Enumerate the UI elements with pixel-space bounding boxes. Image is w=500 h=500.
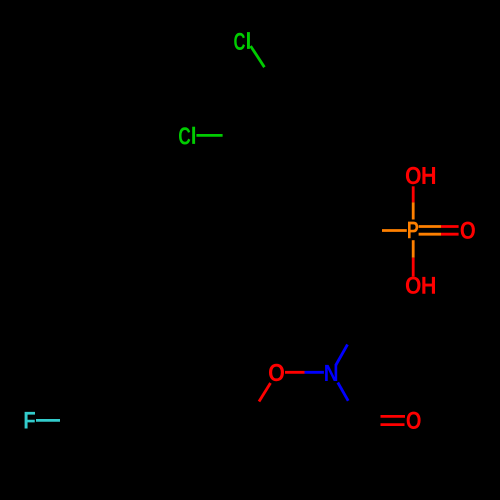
bond P=O lower line, P half xyxy=(419,233,441,236)
bond O-N, O half xyxy=(285,371,305,374)
bond P=O lower line, O half xyxy=(441,233,459,236)
atom label ether O xyxy=(269,364,284,381)
bond Cl1-ring, Cl half xyxy=(251,46,265,67)
bond Cl2-ring, Cl half xyxy=(196,134,222,137)
atom label P xyxy=(408,222,418,239)
bond C-P, P half xyxy=(382,229,407,232)
atom label Cl1 l xyxy=(247,32,250,49)
bond P-OH bottom, O half xyxy=(412,258,415,277)
atom label carbonyl O xyxy=(407,412,421,429)
bond C=O upper line, O half xyxy=(381,415,406,418)
bond O-CH2 benzyl, O half xyxy=(259,383,271,402)
atom label P=O O xyxy=(461,222,475,239)
atom label F xyxy=(25,412,35,429)
atom label OH2 H xyxy=(422,277,435,294)
atom label Cl1 C xyxy=(234,33,245,50)
bond P-OH top, P half xyxy=(412,202,415,219)
bond O-N, N half xyxy=(305,371,324,374)
bond P-OH bottom, P half xyxy=(412,240,415,258)
bond P-OH top, O half xyxy=(412,186,415,202)
bond N-C carbonyl, N half xyxy=(338,383,348,401)
atom label Cl2 l xyxy=(192,127,195,144)
bond P=O upper line, P half xyxy=(419,225,441,228)
bond C=O lower line, O half xyxy=(381,423,405,426)
bond N-CH2, N half xyxy=(336,345,348,366)
bond P=O upper line, O half xyxy=(441,225,459,228)
atom label OH1 O xyxy=(406,167,421,184)
bond F-ring, F half xyxy=(36,419,60,422)
atom label OH1 H xyxy=(422,167,435,184)
atom label Cl2 C xyxy=(179,127,190,144)
atom label amide N xyxy=(325,365,337,381)
atom label OH2 O xyxy=(406,277,421,294)
